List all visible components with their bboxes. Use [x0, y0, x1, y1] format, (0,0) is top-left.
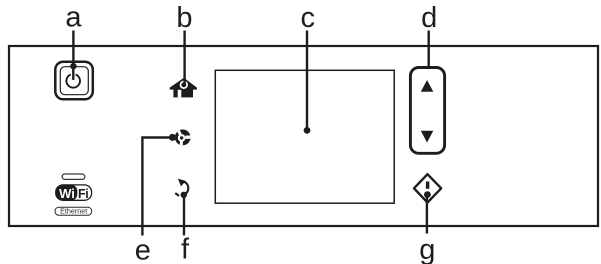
- home button U(b): [170, 78, 197, 98]
- leader line d: [428, 31, 430, 69]
- svg-text:Wi: Wi: [59, 186, 75, 201]
- svg-text:f: f: [181, 233, 190, 264]
- panel outline: [9, 46, 598, 226]
- svg-text:a: a: [65, 2, 82, 34]
- svg-text:Ethernet: Ethernet: [60, 207, 87, 216]
- svg-text:g: g: [419, 234, 435, 264]
- leader line c: [306, 31, 308, 130]
- Ethernet label: [55, 207, 92, 216]
- leader line g: [426, 195, 428, 234]
- up/down buttons (d): [410, 68, 444, 154]
- leader line f: [183, 195, 185, 236]
- wifi LED indicator: [62, 174, 85, 179]
- leader line b: [183, 31, 185, 85]
- leader dot e: [169, 134, 176, 141]
- leader dot b: [181, 82, 186, 87]
- start button U(g): [414, 174, 441, 202]
- svg-text:b: b: [176, 2, 192, 34]
- svg-text:e: e: [135, 235, 151, 264]
- leader dot g: [424, 191, 431, 198]
- back button U(f): [176, 179, 188, 198]
- leader dot a: [70, 63, 76, 69]
- leader line a: [72, 31, 74, 67]
- svg-text:Fi: Fi: [78, 187, 89, 201]
- leader line e: [142, 138, 172, 236]
- leader dot c: [304, 127, 311, 134]
- svg-text:d: d: [421, 2, 437, 34]
- power button U(a): [55, 62, 93, 100]
- LCD screen (c): [215, 70, 394, 203]
- WiFi logo: [56, 185, 92, 201]
- contacts button U(e): [175, 130, 191, 147]
- svg-text:c: c: [301, 2, 316, 34]
